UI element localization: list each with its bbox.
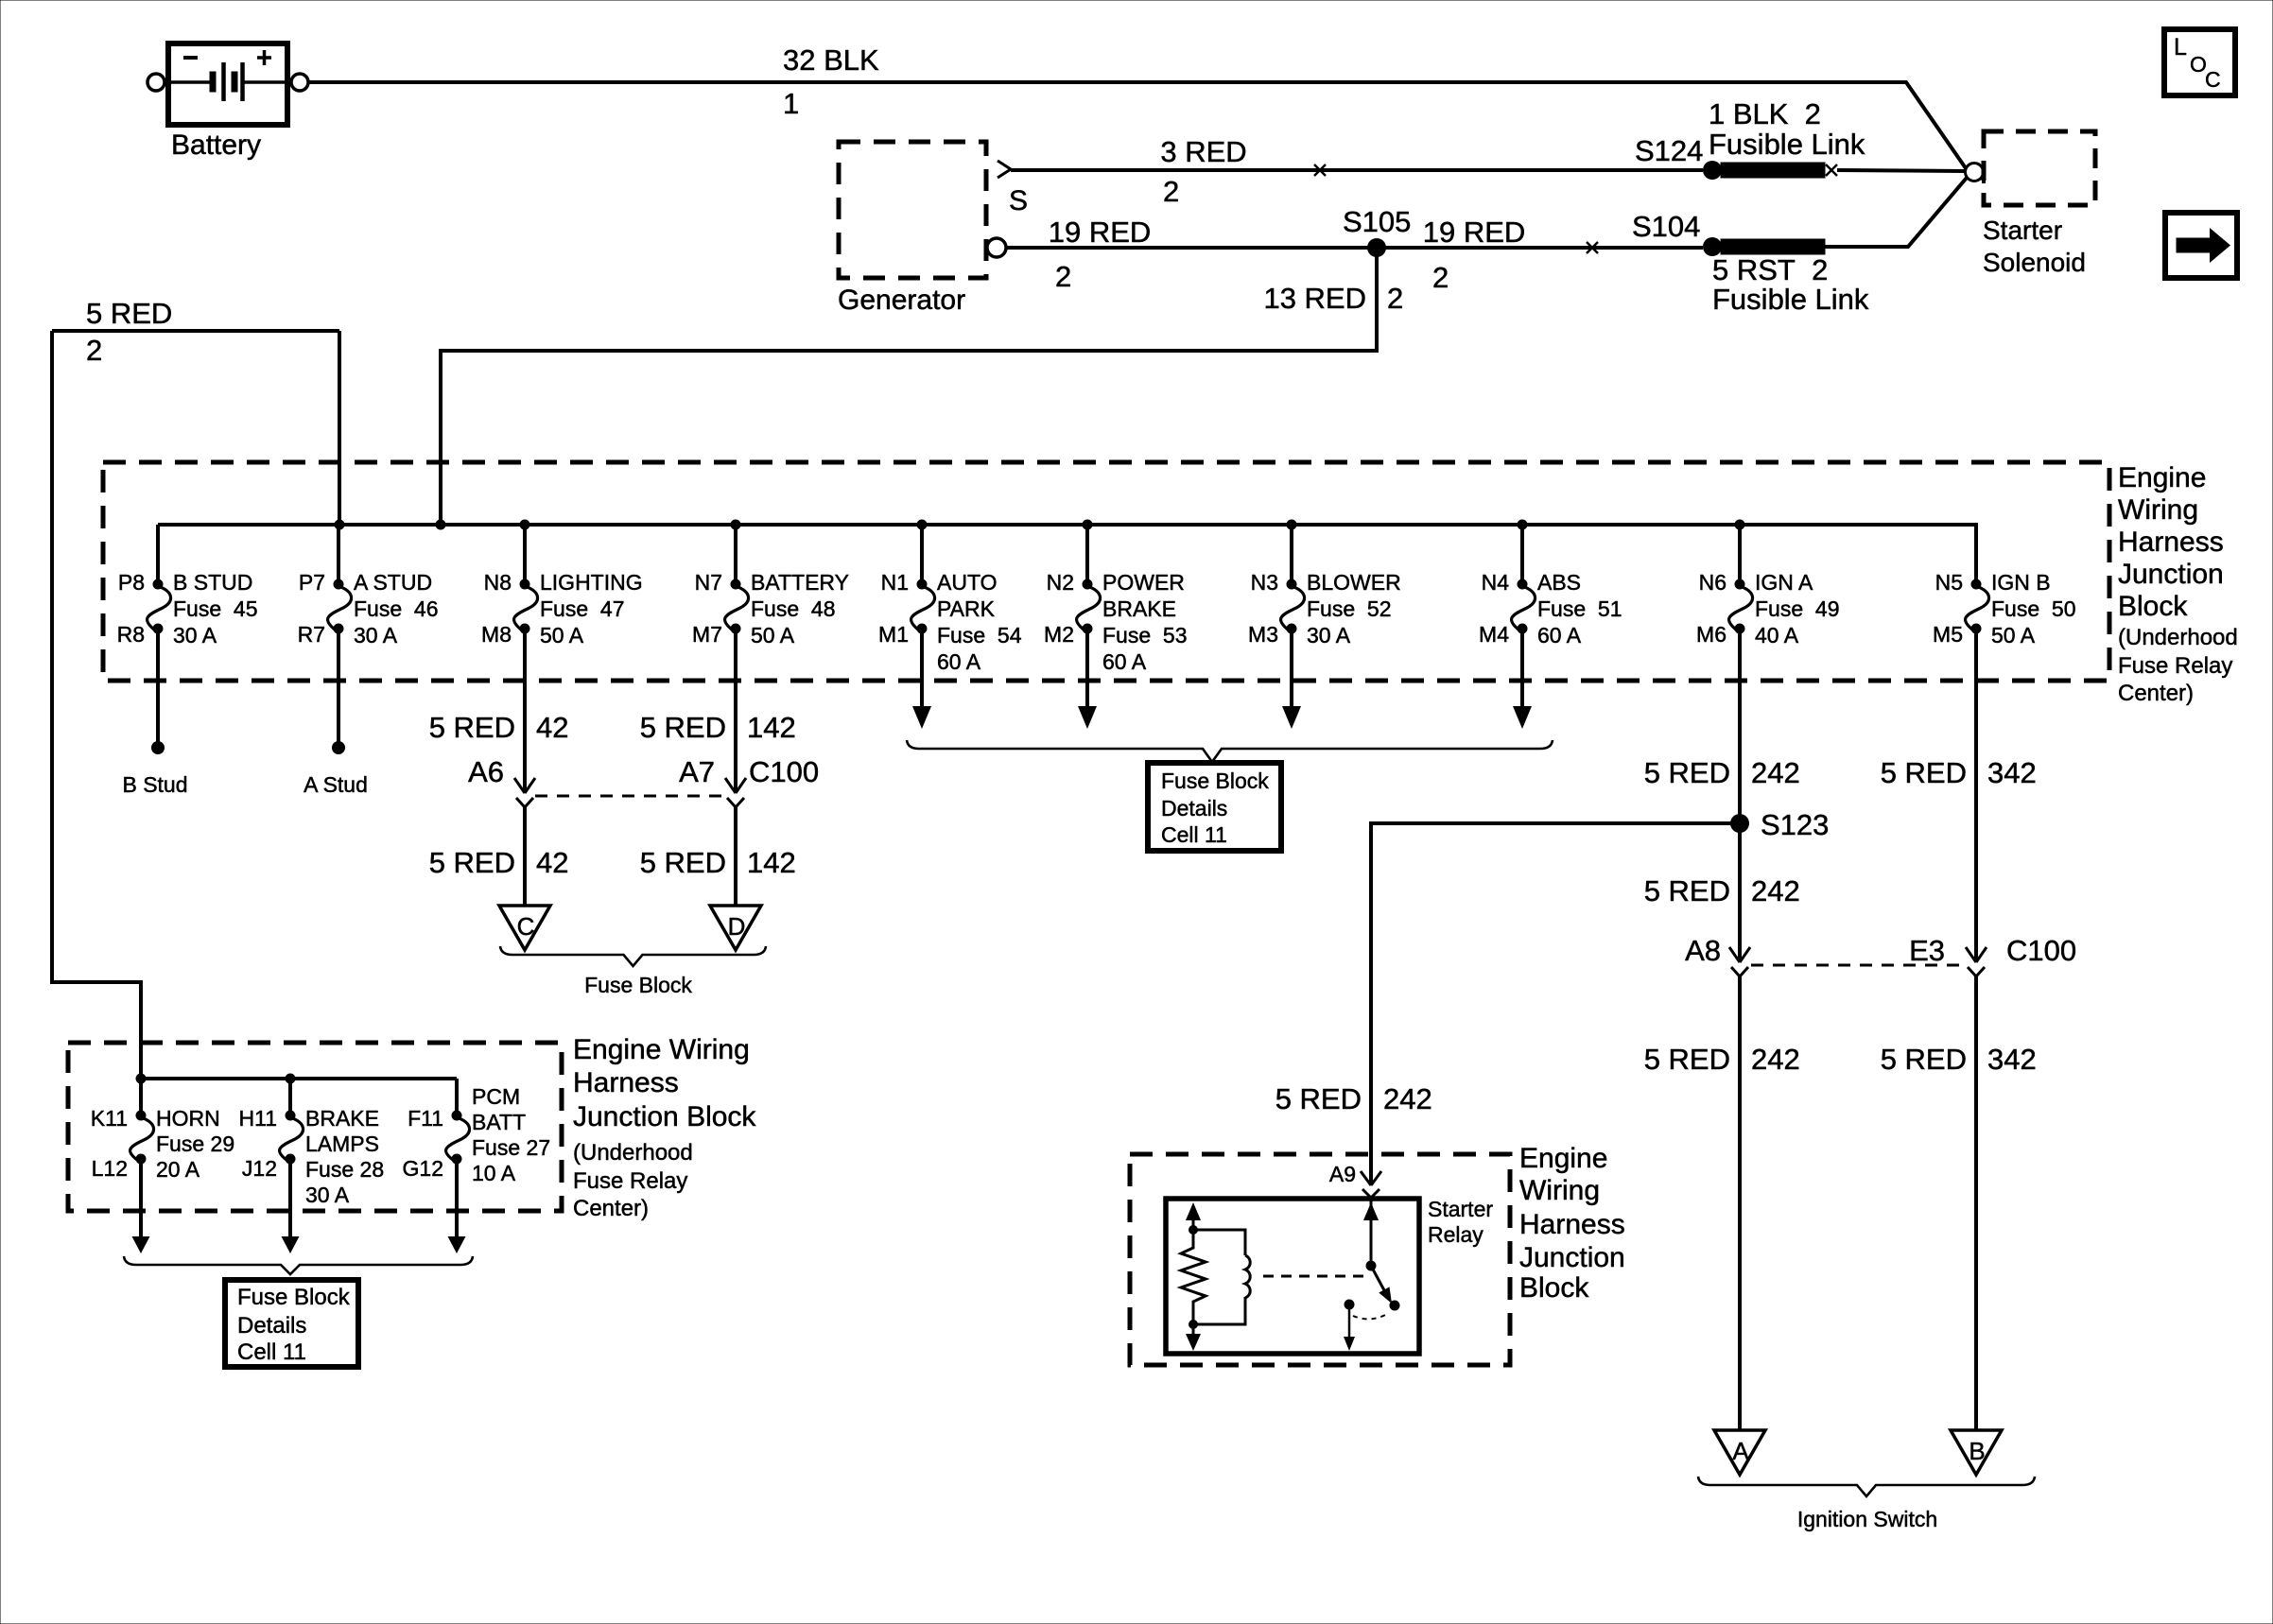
svg-text:5 RED: 5 RED: [429, 711, 515, 744]
bus junction at x=1610: [1518, 520, 1528, 530]
svg-text:PCM: PCM: [472, 1084, 520, 1109]
engine wiring harness junction block (underhood fuse relay center): [103, 462, 2109, 681]
wire 19 RED: [1006, 216, 1703, 294]
svg-text:50 A: 50 A: [540, 623, 584, 648]
fuse block details cell 11 box (upper): [1148, 763, 1281, 851]
generator label: [838, 285, 965, 316]
svg-text:Harness: Harness: [1519, 1209, 1625, 1240]
splice S123: [1730, 808, 1829, 841]
svg-text:M4: M4: [1479, 622, 1509, 647]
svg-text:Fuse 50: Fuse 50: [1991, 596, 2076, 621]
connector C100 A7: [725, 778, 746, 807]
wire 13 RED: [441, 248, 1403, 525]
svg-text:H11: H11: [239, 1106, 278, 1131]
starter relay box: [1166, 1199, 1419, 1354]
wire 5 RED 42 to C: [429, 807, 569, 906]
ignition switch label: [1797, 1507, 1937, 1531]
svg-text:S124: S124: [1635, 134, 1703, 167]
fuse Fuse 29 (HORN) K11/L12: [91, 1079, 234, 1182]
wire 32 BLK: [308, 43, 1966, 168]
fuse Fuse 45 (B STUD) P8/R8: [117, 525, 258, 648]
svg-text:242: 242: [1751, 1043, 1800, 1076]
battery label: [171, 130, 261, 161]
starter solenoid terminal: [1966, 161, 1985, 183]
svg-text:Center): Center): [2118, 681, 2194, 706]
svg-text:Block: Block: [1519, 1272, 1589, 1304]
svg-text:N8: N8: [484, 570, 512, 595]
svg-text:342: 342: [1987, 756, 2037, 789]
svg-text:Details: Details: [1161, 796, 1227, 821]
wire link to solenoid: [1837, 170, 1965, 171]
svg-text:Fuse 53: Fuse 53: [1102, 623, 1188, 648]
lower bus junction dots: [136, 1074, 296, 1084]
svg-text:60 A: 60 A: [937, 649, 981, 674]
svg-text:(Underhood: (Underhood: [2118, 625, 2238, 650]
svg-text:M2: M2: [1044, 622, 1074, 647]
wire link2 to solenoid: [1825, 178, 1967, 247]
svg-text:Starter: Starter: [1983, 216, 2062, 245]
dashed C100 line: [535, 795, 726, 798]
svg-text:K11: K11: [91, 1106, 128, 1131]
svg-text:Block: Block: [2118, 591, 2188, 622]
splice S105: [1343, 205, 1411, 257]
svg-text:M7: M7: [692, 622, 722, 647]
svg-text:60 A: 60 A: [1537, 623, 1582, 648]
svg-text:Junction: Junction: [1519, 1242, 1625, 1273]
svg-text:(Underhood: (Underhood: [573, 1140, 693, 1166]
svg-text:B Stud: B Stud: [122, 772, 187, 797]
bus junction at x=1366: [1287, 520, 1297, 530]
wire 5 RED feed: [52, 297, 339, 1079]
svg-text:AUTO: AUTO: [937, 570, 997, 595]
svg-text:Fuse 47: Fuse 47: [540, 596, 625, 621]
connector C100 A8: [1729, 947, 1750, 976]
svg-text:IGN B: IGN B: [1991, 570, 2051, 595]
svg-text:A8: A8: [1685, 934, 1721, 967]
svg-text:BRAKE: BRAKE: [1102, 596, 1176, 621]
wire 5 RED 242 lower: [1644, 976, 1800, 1430]
relay coil output arrow: [1186, 1320, 1201, 1351]
svg-text:BRAKE: BRAKE: [305, 1106, 379, 1131]
triangle C: [499, 906, 550, 950]
svg-text:Fuse 46: Fuse 46: [354, 596, 439, 621]
triangle A: [1714, 1430, 1765, 1475]
fuse Fuse 28 (BRAKE/LAMPS) H11/J12: [239, 1079, 385, 1207]
svg-text:30 A: 30 A: [354, 623, 398, 648]
splice S104: [1632, 210, 1722, 256]
starter relay label: [1428, 1197, 1493, 1247]
svg-text:2: 2: [1055, 260, 1071, 293]
svg-text:42: 42: [536, 711, 568, 744]
wire 5 RED 142 (A7): [640, 629, 819, 792]
upper block title: [2118, 462, 2238, 706]
svg-text:Ignition Switch: Ignition Switch: [1797, 1507, 1937, 1531]
relay link dashed: [1263, 1275, 1364, 1278]
relay block title: [1519, 1143, 1625, 1304]
svg-text:M5: M5: [1933, 622, 1963, 647]
relay resistor: [1181, 1230, 1206, 1324]
starter relay junction block box: [1130, 1154, 1510, 1365]
svg-text:50 A: 50 A: [1991, 623, 2036, 648]
svg-text:Fuse 48: Fuse 48: [751, 596, 836, 621]
generator: [839, 142, 1028, 278]
svg-text:Cell 11: Cell 11: [237, 1339, 306, 1365]
engine wiring harness junction block lower: [68, 1043, 562, 1211]
svg-text:Solenoid: Solenoid: [1983, 248, 2086, 277]
svg-text:5 RED: 5 RED: [640, 846, 726, 879]
fuse Fuse 52 (BLOWER) N3/M3: [1248, 525, 1401, 648]
lower block title: [573, 1034, 756, 1221]
svg-text:5 RED: 5 RED: [640, 711, 726, 744]
svg-text:N6: N6: [1699, 570, 1726, 595]
svg-text:5 RED: 5 RED: [1881, 1043, 1967, 1076]
svg-text:C100: C100: [2006, 934, 2076, 967]
svg-text:HORN: HORN: [156, 1106, 220, 1131]
svg-text:Center): Center): [573, 1196, 649, 1221]
svg-text:Junction Block: Junction Block: [573, 1101, 756, 1132]
svg-text:IGN A: IGN A: [1755, 570, 1813, 595]
svg-text:20 A: 20 A: [156, 1157, 200, 1182]
svg-text:Fuse 51: Fuse 51: [1537, 596, 1622, 621]
svg-text:2: 2: [1432, 261, 1449, 294]
svg-text:A9: A9: [1329, 1162, 1356, 1186]
fuse Fuse 53 (POWER/BRAKE) N2/M2: [1044, 525, 1187, 674]
svg-text:L: L: [2174, 34, 2187, 60]
fuse Fuse 54 (AUTO/PARK) N1/M1: [878, 525, 1022, 674]
brace fuse block (C D): [500, 946, 766, 966]
svg-text:5 RED: 5 RED: [1644, 1043, 1730, 1076]
dashed C100 line right: [1751, 964, 1965, 967]
svg-text:2: 2: [86, 334, 102, 367]
fuse Fuse 47 (LIGHTING) N8/M8: [481, 525, 643, 648]
svg-text:5 RED: 5 RED: [429, 846, 515, 879]
fusible link 5 RST 2: [1712, 239, 1869, 316]
svg-text:19 RED: 19 RED: [1049, 216, 1152, 249]
svg-text:P7: P7: [299, 570, 325, 595]
svg-text:Fusible Link: Fusible Link: [1712, 283, 1869, 316]
svg-text:Engine: Engine: [2118, 462, 2206, 493]
svg-text:LIGHTING: LIGHTING: [540, 570, 643, 595]
svg-text:Fuse Relay: Fuse Relay: [573, 1168, 687, 1194]
wire 5 RED 242 upper: [1644, 629, 1800, 967]
bus junction at x=778: [731, 520, 741, 530]
brace fuse block details (lower): [124, 1256, 473, 1274]
svg-text:Fuse 52: Fuse 52: [1307, 596, 1392, 621]
svg-text:BATTERY: BATTERY: [751, 570, 849, 595]
svg-text:N5: N5: [1935, 570, 1963, 595]
bus junction at x=1840: [1735, 520, 1745, 530]
svg-text:J12: J12: [242, 1156, 277, 1181]
svg-text:M6: M6: [1696, 622, 1726, 647]
svg-text:Starter: Starter: [1428, 1197, 1493, 1221]
svg-text:S123: S123: [1761, 808, 1829, 841]
relay coil: [1193, 1230, 1250, 1324]
svg-text:A: A: [1732, 1437, 1749, 1465]
svg-text:Details: Details: [237, 1313, 306, 1339]
svg-text:G12: G12: [403, 1156, 443, 1181]
triangle B: [1951, 1430, 2002, 1475]
svg-text:N7: N7: [695, 570, 722, 595]
svg-text:Engine: Engine: [1519, 1143, 1607, 1174]
svg-text:13 RED: 13 RED: [1263, 282, 1366, 315]
svg-text:S105: S105: [1343, 205, 1411, 238]
svg-text:Wiring: Wiring: [1519, 1175, 1600, 1206]
svg-text:1 BLK 2: 1 BLK 2: [1709, 97, 1821, 130]
fuse Fuse 48 (BATTERY) N7/M7: [692, 525, 849, 648]
svg-text:M8: M8: [481, 622, 512, 647]
arrow below fuse x=1366: [1282, 629, 1301, 729]
svg-text:BLOWER: BLOWER: [1307, 570, 1401, 595]
fuse Fuse 51 (ABS) N4/M4: [1479, 525, 1622, 648]
svg-text:PARK: PARK: [937, 596, 996, 621]
triangle D: [710, 906, 761, 950]
svg-text:N2: N2: [1047, 570, 1074, 595]
relay coil input arrow: [1186, 1202, 1201, 1235]
arrow below lower fuse x=307: [282, 1159, 300, 1253]
svg-text:242: 242: [1751, 874, 1800, 907]
wire to A Stud: [304, 629, 368, 797]
bus junction at x=466: [436, 520, 446, 530]
fuse Fuse 50 (IGN B) N5/M5: [1933, 570, 2075, 648]
connector C100 A6: [514, 778, 535, 807]
svg-text:Fuse 49: Fuse 49: [1755, 596, 1840, 621]
svg-text:142: 142: [747, 846, 796, 879]
svg-text:Fuse Block: Fuse Block: [584, 973, 692, 997]
wire S123 to relay: [1275, 823, 1731, 1183]
fuse Fuse 49 (IGN A) N6/M6: [1696, 525, 1839, 648]
svg-text:S104: S104: [1632, 210, 1700, 243]
loc box: [2164, 29, 2235, 95]
svg-text:Fuse 54: Fuse 54: [937, 623, 1022, 648]
svg-text:Generator: Generator: [838, 285, 965, 316]
svg-text:P8: P8: [118, 570, 145, 595]
bus: [158, 525, 1976, 584]
svg-text:40 A: 40 A: [1755, 623, 1799, 648]
svg-text:S: S: [1009, 185, 1028, 216]
wire 5 RED 142 to D: [640, 807, 796, 906]
svg-text:Engine Wiring: Engine Wiring: [573, 1034, 750, 1065]
svg-text:Wiring: Wiring: [2118, 494, 2198, 526]
brace fuse block details (upper): [907, 740, 1553, 762]
svg-text:Harness: Harness: [2118, 527, 2224, 558]
wire 5 RED 42 (A6): [429, 629, 569, 792]
svg-text:N1: N1: [881, 570, 909, 595]
arrow below lower fuse x=149: [132, 1159, 150, 1253]
connector A9: [1329, 1162, 1381, 1198]
svg-text:30 A: 30 A: [305, 1183, 350, 1207]
svg-text:A7: A7: [679, 755, 715, 788]
svg-text:Harness: Harness: [573, 1067, 679, 1098]
svg-text:Relay: Relay: [1428, 1222, 1484, 1247]
bus junction at x=1150: [1083, 520, 1093, 530]
svg-text:A STUD: A STUD: [354, 570, 432, 595]
svg-text:Junction: Junction: [2118, 559, 2224, 590]
svg-text:Fuse 28: Fuse 28: [305, 1157, 384, 1182]
svg-text:B: B: [1969, 1437, 1985, 1465]
svg-text:5 RED: 5 RED: [86, 297, 172, 330]
svg-text:242: 242: [1751, 756, 1800, 789]
wire 5 RED 342 lower: [1881, 976, 2037, 1430]
svg-text:2: 2: [1163, 175, 1179, 208]
svg-text:30 A: 30 A: [1307, 623, 1351, 648]
svg-text:5 RED: 5 RED: [1644, 874, 1730, 907]
svg-text:N4: N4: [1482, 570, 1510, 595]
fusible link 1 BLK 2: [1709, 97, 1865, 178]
svg-text:A6: A6: [468, 755, 504, 788]
svg-text:Fusible Link: Fusible Link: [1709, 128, 1865, 161]
fuse block label: [584, 973, 692, 997]
svg-text:Fuse 29: Fuse 29: [156, 1132, 234, 1156]
svg-text:ABS: ABS: [1537, 570, 1581, 595]
fuse block details cell 11 box (lower): [225, 1280, 358, 1367]
svg-text:BATT: BATT: [472, 1110, 526, 1134]
svg-text:32 BLK: 32 BLK: [783, 43, 879, 77]
svg-text:L12: L12: [92, 1156, 128, 1181]
svg-text:F11: F11: [408, 1106, 443, 1131]
fuse Fuse 27 (PCM/BATT) F11/G12: [403, 1079, 551, 1185]
arrow below fuse x=975: [912, 629, 931, 729]
svg-text:10 A: 10 A: [472, 1161, 516, 1185]
svg-text:C: C: [517, 912, 535, 941]
svg-text:C100: C100: [749, 755, 819, 788]
svg-text:Fuse 27: Fuse 27: [472, 1135, 550, 1160]
svg-text:Fuse 45: Fuse 45: [173, 596, 258, 621]
arrow below lower fuse x=483: [448, 1159, 466, 1253]
svg-text:1: 1: [783, 87, 799, 120]
wire 3 RED: [1011, 135, 1703, 208]
arrow box: [2165, 213, 2237, 278]
svg-text:50 A: 50 A: [751, 623, 795, 648]
svg-text:LAMPS: LAMPS: [305, 1132, 379, 1156]
svg-text:N3: N3: [1251, 570, 1278, 595]
svg-text:D: D: [728, 912, 746, 941]
relay switch: [1344, 1199, 1400, 1351]
svg-text:A Stud: A Stud: [304, 772, 368, 797]
battery: [147, 43, 308, 125]
connector C100 E3: [1966, 947, 1987, 976]
wire 5 RED 342 upper: [1881, 629, 2076, 967]
svg-text:C: C: [2205, 67, 2221, 92]
bus junction at x=359: [335, 520, 345, 530]
svg-text:342: 342: [1987, 1043, 2037, 1076]
svg-text:30 A: 30 A: [173, 623, 217, 648]
svg-text:Fuse Block: Fuse Block: [237, 1285, 351, 1310]
lower bus: [141, 1077, 457, 1080]
arrow below fuse x=1610: [1513, 629, 1532, 729]
svg-text:R8: R8: [117, 622, 145, 647]
svg-text:142: 142: [747, 711, 796, 744]
svg-text:2: 2: [1387, 282, 1403, 315]
svg-text:242: 242: [1383, 1082, 1432, 1115]
svg-text:B STUD: B STUD: [173, 570, 252, 595]
svg-text:Cell 11: Cell 11: [1161, 822, 1227, 847]
svg-text:M1: M1: [878, 622, 909, 647]
svg-text:5 RED: 5 RED: [1275, 1082, 1362, 1115]
svg-text:R7: R7: [298, 622, 325, 647]
bus junction at x=555: [520, 520, 530, 530]
svg-text:60 A: 60 A: [1102, 649, 1147, 674]
fuse Fuse 46 (A STUD) P7/R7: [298, 525, 439, 648]
wire to B Stud: [122, 629, 187, 797]
svg-text:5 RST 2: 5 RST 2: [1712, 253, 1828, 286]
bus junction at x=975: [917, 520, 928, 530]
svg-text:E3: E3: [1909, 934, 1945, 967]
svg-text:POWER: POWER: [1102, 570, 1185, 595]
svg-text:M3: M3: [1248, 622, 1278, 647]
svg-text:Battery: Battery: [171, 130, 261, 161]
splice S124: [1635, 134, 1722, 180]
arrow below fuse x=1150: [1078, 629, 1097, 729]
svg-text:3 RED: 3 RED: [1160, 135, 1246, 168]
brace ignition switch: [1698, 1477, 2035, 1496]
svg-text:5 RED: 5 RED: [1881, 756, 1967, 789]
svg-text:Fuse Relay: Fuse Relay: [2118, 653, 2232, 679]
svg-text:19 RED: 19 RED: [1423, 216, 1526, 249]
svg-text:5 RED: 5 RED: [1644, 756, 1730, 789]
starter solenoid: [1983, 131, 2095, 277]
svg-text:Fuse Block: Fuse Block: [1161, 769, 1269, 793]
svg-text:42: 42: [536, 846, 568, 879]
